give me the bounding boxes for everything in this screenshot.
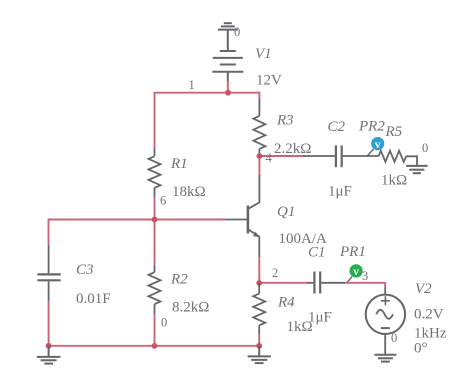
- svg-text:0.2V: 0.2V: [414, 307, 444, 323]
- wire C3 bottom: [48, 301, 50, 346]
- probe PR2: [371, 137, 384, 150]
- wire node 3 to V2: [345, 283, 385, 288]
- probe PR1: [350, 264, 363, 277]
- svg-text:R4: R4: [277, 294, 295, 310]
- junction node 6: [152, 217, 158, 223]
- svg-text:1μF: 1μF: [308, 310, 332, 326]
- resistor R4: [253, 283, 265, 334]
- svg-text:1: 1: [189, 78, 195, 92]
- svg-text:0: 0: [234, 25, 240, 39]
- capacitor C2: [303, 145, 379, 167]
- probe PR1 pin: [347, 277, 352, 283]
- junction bottom left: [46, 343, 52, 349]
- svg-text:V1: V1: [255, 46, 272, 62]
- wire emitter to node 2: [258, 257, 260, 283]
- svg-text:0: 0: [161, 315, 167, 329]
- svg-text:R1: R1: [170, 156, 188, 172]
- wire node 2: [259, 282, 307, 284]
- svg-text:4: 4: [266, 151, 273, 165]
- junction top rail / battery: [225, 90, 231, 96]
- ground (right of R5): [406, 166, 428, 173]
- ground (below R4): [248, 346, 271, 363]
- svg-text:C1: C1: [308, 245, 326, 261]
- resistor R2: [149, 265, 161, 314]
- probe PR2 pin: [367, 149, 373, 156]
- svg-text:R2: R2: [170, 271, 188, 287]
- svg-text:1kHz: 1kHz: [414, 326, 447, 342]
- junction node 4: [257, 153, 263, 159]
- ground (bottom left): [37, 346, 61, 364]
- wire node 4: [259, 155, 302, 157]
- transistor Q1: [225, 175, 260, 257]
- svg-text:0: 0: [422, 141, 428, 155]
- junction node 2: [256, 280, 262, 286]
- svg-text:0°: 0°: [414, 341, 428, 357]
- wire V2 top pin: [384, 288, 386, 295]
- wire battery bottom to rail: [227, 81, 229, 93]
- wire node 4 to collector: [258, 156, 260, 175]
- junction R2 bottom: [152, 343, 158, 349]
- ground (below V2): [374, 355, 396, 362]
- svg-text:2.2kΩ: 2.2kΩ: [274, 141, 311, 157]
- wire R4 bottom: [258, 334, 260, 345]
- svg-text:R5: R5: [385, 124, 403, 140]
- svg-text:V2: V2: [415, 281, 432, 297]
- capacitor C3: [37, 244, 60, 300]
- svg-text:2: 2: [272, 266, 278, 280]
- resistor R1: [149, 148, 161, 197]
- svg-text:v: v: [353, 264, 359, 278]
- svg-text:0.01F: 0.01F: [76, 291, 111, 307]
- svg-text:C2: C2: [328, 119, 346, 135]
- svg-text:0: 0: [391, 331, 397, 345]
- AC source V2: [366, 295, 405, 355]
- svg-text:PR2: PR2: [358, 119, 385, 135]
- svg-text:3: 3: [362, 269, 368, 283]
- svg-text:8.2kΩ: 8.2kΩ: [172, 300, 209, 316]
- svg-text:C3: C3: [76, 262, 94, 278]
- svg-text:12V: 12V: [256, 73, 282, 89]
- wire R1 bottom to node 6: [154, 197, 156, 265]
- wire bottom rail: [49, 345, 260, 347]
- svg-text:1μF: 1μF: [328, 184, 352, 200]
- capacitor C1: [307, 272, 345, 294]
- svg-text:18kΩ: 18kΩ: [172, 184, 206, 200]
- wire top rail node 1: [155, 93, 260, 149]
- svg-text:PR1: PR1: [339, 244, 366, 260]
- svg-text:6: 6: [160, 194, 166, 208]
- junction R4 bottom: [256, 343, 262, 349]
- battery V1: [212, 51, 243, 81]
- svg-text:v: v: [375, 137, 381, 151]
- svg-text:R3: R3: [276, 113, 294, 129]
- ground top (above V1): [218, 23, 238, 51]
- wire base rail node 6: [49, 220, 226, 245]
- resistor R5: [379, 151, 418, 166]
- svg-text:1kΩ: 1kΩ: [381, 173, 407, 189]
- wire R2 bottom: [154, 314, 156, 346]
- svg-text:Q1: Q1: [277, 204, 295, 220]
- resistor R3: [253, 99, 265, 157]
